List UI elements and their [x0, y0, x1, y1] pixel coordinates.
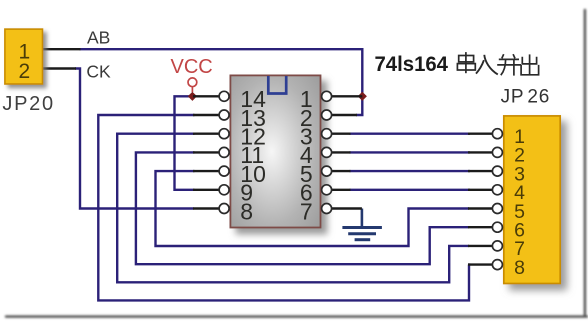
svg-text:JP20: JP20 — [2, 93, 54, 115]
junction dot VCC at U1 pin 14 — [188, 92, 197, 101]
ground — [342, 209, 382, 240]
junction dot AB at U1 pin 1 — [358, 92, 367, 101]
JP26 pin 3 — [468, 166, 502, 176]
svg-text:2: 2 — [19, 60, 31, 83]
pin 14 — [193, 86, 266, 112]
pin 1 — [300, 86, 362, 112]
wire QF: U1 pin11 to JP26 pin6 — [136, 152, 469, 264]
pin 13 — [193, 105, 266, 131]
connector JP26 — [504, 116, 560, 284]
JP26 pin 1 — [468, 129, 502, 139]
svg-text:AB: AB — [87, 27, 110, 47]
IC U1 74LS164 — [230, 75, 320, 227]
JP26 pin 4 — [468, 185, 502, 195]
JP26 pin 6 — [468, 222, 502, 232]
wire QH: U1 pin13 to JP26 pin8 — [98, 115, 469, 300]
title chinese ru (入) — [476, 55, 498, 75]
JP26 pin 5 — [468, 204, 502, 214]
pin 11 — [193, 142, 264, 168]
wire QA: U1 pin3 to JP26 pin1 — [350, 132, 471, 134]
wire QE: U1 pin10 to JP26 pin5 — [156, 171, 470, 246]
wire QD: U1 pin6 to JP26 pin4 — [350, 189, 471, 191]
pin 8 — [193, 198, 253, 224]
wire QB: U1 pin4 to JP26 pin2 — [350, 151, 471, 153]
pin 2 — [300, 105, 357, 131]
svg-text:8: 8 — [514, 257, 525, 279]
pin 3 — [300, 124, 351, 150]
title chinese chu (出) — [521, 54, 539, 74]
svg-text:VCC: VCC — [171, 56, 213, 78]
pin 5 — [300, 161, 351, 187]
svg-text:8: 8 — [240, 198, 253, 224]
title chinese bing (并) — [497, 54, 521, 75]
power VCC — [171, 56, 213, 92]
title chinese chuan (串) — [457, 52, 475, 73]
JP26 pin 2 — [468, 147, 502, 157]
svg-text:74ls164: 74ls164 — [375, 53, 449, 76]
connector JP20 — [5, 29, 43, 84]
wire CK net: JP20 pin2 to U1 pin8 — [43, 69, 194, 209]
wire VCC to U1 pin9 — [175, 96, 195, 190]
pin 7 — [300, 198, 362, 224]
JP26 pin 8 — [468, 260, 502, 270]
pin 4 — [300, 142, 351, 168]
pin 10 — [193, 161, 266, 187]
wire QG: U1 pin12 to JP26 pin7 — [117, 134, 469, 283]
pin 12 — [193, 124, 266, 150]
JP26 pin 7 — [468, 241, 502, 251]
pin 6 — [300, 180, 351, 206]
pin 9 — [193, 180, 253, 206]
wire QC: U1 pin5 to JP26 pin3 — [350, 170, 471, 172]
svg-text:7: 7 — [300, 198, 313, 224]
svg-text:CK: CK — [86, 62, 111, 82]
wire AB net: JP20 pin1 to U1 pin1 and pin2 — [43, 49, 363, 115]
